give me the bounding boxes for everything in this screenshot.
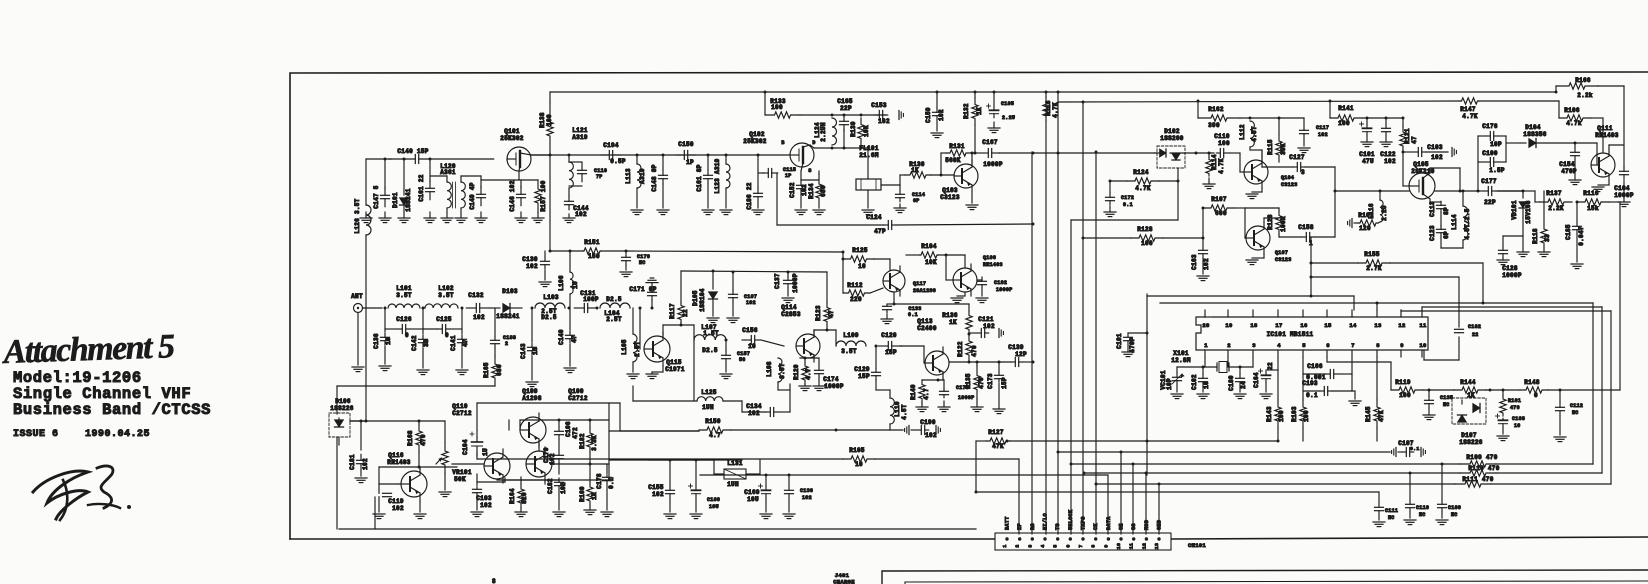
capacitor C144 <box>563 188 589 223</box>
svg-text:Attachment 5: Attachment 5 <box>1 328 176 371</box>
svg-text:1K: 1K <box>911 167 919 174</box>
svg-text:C3123: C3123 <box>1275 257 1292 263</box>
svg-text:C190: C190 <box>920 419 936 426</box>
svg-text:102: 102 <box>1431 154 1443 161</box>
svg-text:VD101: VD101 <box>1511 200 1518 220</box>
svg-text:8: 8 <box>1376 342 1380 349</box>
svg-text:ISSUE 6: ISSUE 6 <box>13 429 59 440</box>
svg-text:R121: R121 <box>1404 128 1411 144</box>
resistor R150 <box>699 418 903 439</box>
svg-text:4: 4 <box>1277 342 1281 349</box>
svg-text:D: D <box>812 140 815 146</box>
capacitor C188 <box>491 308 517 348</box>
svg-text:102: 102 <box>560 482 567 494</box>
ground Q111 emitter <box>1592 181 1609 192</box>
svg-text:4.7: 4.7 <box>805 368 812 380</box>
svg-text:1990.04.25: 1990.04.25 <box>85 429 150 440</box>
svg-text:Q109: Q109 <box>522 388 538 395</box>
svg-text:C177: C177 <box>1481 178 1497 185</box>
capacitor C147 <box>373 158 390 209</box>
svg-text:10U: 10U <box>709 504 719 510</box>
resistor R112 <box>843 282 870 303</box>
svg-text:2.2k: 2.2k <box>1577 92 1593 99</box>
svg-text:7P: 7P <box>596 174 603 180</box>
svg-text:4.5T: 4.5T <box>901 404 908 420</box>
inductor L107 <box>694 324 726 354</box>
wire D106 out <box>350 420 445 423</box>
svg-text:9: 9 <box>1103 544 1109 547</box>
wire Q116 base <box>379 467 457 484</box>
capacitor C110 <box>1214 133 1230 158</box>
resistor R113 <box>1043 97 1059 534</box>
svg-text:R117: R117 <box>669 303 676 319</box>
svg-text:BATT: BATT <box>1005 516 1011 530</box>
svg-text:C129: C129 <box>854 366 870 373</box>
resistor R106 <box>1559 101 1603 152</box>
svg-text:13: 13 <box>1374 322 1382 329</box>
wire C107 row <box>1057 451 1391 535</box>
resistor R109 <box>1460 454 1593 467</box>
capacitor C156 <box>742 327 784 350</box>
svg-text:10: 10 <box>385 337 392 345</box>
capacitor C149 <box>469 176 486 210</box>
svg-text:15P: 15P <box>1001 377 1008 389</box>
svg-text:12P: 12P <box>1015 351 1027 358</box>
wire emitter row <box>497 479 559 481</box>
capacitor C178 <box>596 464 615 517</box>
svg-text:B: B <box>781 140 784 146</box>
inductor L102 <box>422 285 464 310</box>
svg-text:CK: CK <box>1093 523 1099 530</box>
wire 191 to VD101 <box>1498 190 1525 193</box>
svg-text:R111 470: R111 470 <box>1462 476 1493 483</box>
svg-text:C130: C130 <box>522 256 538 263</box>
svg-text:0.1: 0.1 <box>1306 392 1318 399</box>
svg-text:C194: C194 <box>603 142 619 149</box>
svg-text:C102: C102 <box>1191 374 1198 390</box>
resistor R115 <box>1267 118 1287 162</box>
capacitor C127 <box>1262 150 1337 237</box>
capacitor C125 <box>423 316 462 339</box>
svg-text:NC: NC <box>639 260 646 266</box>
svg-text:C100: C100 <box>1482 150 1498 157</box>
wire C124 feedback <box>777 173 884 225</box>
svg-text:L110: L110 <box>894 401 901 417</box>
svg-text:472: 472 <box>572 427 579 439</box>
resistor R110 <box>1460 465 1602 476</box>
resistor R165 <box>483 348 503 386</box>
wire Q105 source out <box>1430 168 1462 193</box>
svg-text:47: 47 <box>462 339 469 347</box>
svg-text:10K: 10K <box>925 259 937 266</box>
svg-text:15k: 15k <box>1587 205 1599 212</box>
diode D104 <box>1520 124 1577 148</box>
svg-text:C146 102: C146 102 <box>509 180 516 211</box>
svg-text:D2.5: D2.5 <box>606 296 622 303</box>
ground Q107 emitter <box>1246 254 1264 265</box>
svg-text:R162: R162 <box>1208 106 1224 113</box>
svg-text:3.5T: 3.5T <box>841 348 857 355</box>
capacitor C101 <box>1359 118 1375 165</box>
svg-text:C104: C104 <box>462 439 469 455</box>
svg-text:102: 102 <box>1318 132 1328 138</box>
svg-text:C141: C141 <box>450 335 457 351</box>
svg-text:22P: 22P <box>1484 199 1496 206</box>
svg-text:4.7K: 4.7K <box>1135 185 1151 192</box>
svg-text:RN1403: RN1403 <box>387 459 411 466</box>
wire R105 row <box>477 452 843 459</box>
capacitor C136b <box>783 475 813 519</box>
wire Q111 collector <box>1609 145 1624 149</box>
bus wire C <box>1057 91 1060 535</box>
wire Q114 emitter node <box>800 355 819 360</box>
capacitor C166 <box>1303 363 1352 391</box>
svg-text:IC101 MB1511: IC101 MB1511 <box>1267 331 1314 338</box>
capacitor C161 <box>418 158 435 202</box>
capacitor C158 <box>1279 224 1335 247</box>
svg-text:20: 20 <box>1202 322 1209 329</box>
svg-text:1SS226: 1SS226 <box>330 405 354 412</box>
svg-text:C128: C128 <box>1502 265 1518 272</box>
svg-text:102: 102 <box>801 184 808 196</box>
svg-text:0.1: 0.1 <box>908 312 918 318</box>
inductor L126 <box>354 198 371 422</box>
capacitor C181 <box>349 421 369 483</box>
wire Q108 collector <box>950 361 971 364</box>
svg-text:CE: CE <box>1119 523 1125 530</box>
svg-text:50K: 50K <box>454 476 466 483</box>
svg-text:47K: 47K <box>1378 410 1385 422</box>
svg-text:R104: R104 <box>921 243 937 250</box>
svg-text:5: 5 <box>1302 342 1306 349</box>
handwritten signature <box>33 466 131 520</box>
inductor L105 <box>621 308 641 379</box>
svg-text:1K: 1K <box>976 107 983 115</box>
svg-text:100: 100 <box>1303 410 1310 422</box>
svg-text:L131: L131 <box>727 460 743 467</box>
svg-text:2SA1290: 2SA1290 <box>913 288 936 294</box>
svg-text:C149 4P: C149 4P <box>469 182 476 209</box>
capacitor C105 <box>987 91 1016 133</box>
svg-text:102: 102 <box>575 211 587 218</box>
ground Q116 emitter <box>414 501 426 519</box>
svg-text:25K302: 25K302 <box>500 135 524 142</box>
wire to Q104 base <box>1230 153 1244 172</box>
transistor Q106 <box>953 255 1003 296</box>
capacitor C134 <box>742 401 790 417</box>
svg-text:C136: C136 <box>373 333 380 349</box>
capacitor C109 <box>1436 464 1461 525</box>
svg-text:C104: C104 <box>1614 185 1630 192</box>
capacitor C175 <box>938 380 975 412</box>
svg-text:CS: CS <box>1131 523 1137 530</box>
capacitor C117 <box>1298 118 1329 153</box>
svg-text:R114: R114 <box>1211 154 1218 170</box>
wire Q114 collector <box>814 330 836 346</box>
svg-text:TS: TS <box>1055 523 1061 530</box>
bus wire A <box>1031 152 1033 534</box>
svg-text:C121: C121 <box>978 316 994 323</box>
svg-text:22P: 22P <box>840 105 852 112</box>
svg-text:L106: L106 <box>558 275 565 291</box>
svg-text:Q100: Q100 <box>568 388 584 395</box>
svg-text:R155: R155 <box>1364 251 1380 258</box>
resistor R133 <box>765 98 800 118</box>
svg-text:C162: C162 <box>1468 324 1481 330</box>
svg-text:100: 100 <box>771 104 783 111</box>
inductor L121 <box>569 127 588 188</box>
transistor Q114 <box>781 304 820 362</box>
svg-text:100: 100 <box>1338 120 1350 127</box>
svg-text:10: 10 <box>1419 342 1426 349</box>
transistor Q110 <box>484 449 510 483</box>
wire R155 out row <box>1310 276 1460 279</box>
inductor L104 <box>596 296 642 323</box>
svg-text:470: 470 <box>978 377 985 389</box>
capacitor C177 <box>1478 178 1523 206</box>
resistor R155 <box>1358 251 1485 305</box>
resistor R118 <box>1532 191 1551 257</box>
svg-text:10P: 10P <box>1490 141 1502 148</box>
IC101 bottom pins <box>1204 342 1426 357</box>
svg-text:15: 15 <box>532 347 539 355</box>
wire R150 row <box>609 430 699 432</box>
inductor L116 <box>1368 190 1388 223</box>
IC IC101 MB1511 <box>1196 317 1428 350</box>
svg-text:R116: R116 <box>1583 190 1599 197</box>
bus wire F <box>1095 151 1098 535</box>
svg-text:C123: C123 <box>1429 225 1436 241</box>
svg-text:C172: C172 <box>1121 195 1134 201</box>
resistor R145 <box>1365 357 1385 441</box>
svg-text:CHARGE: CHARGE <box>833 579 855 584</box>
capacitor C155 <box>648 459 676 519</box>
transistor Q108 <box>900 318 949 379</box>
text J401 CHARGE <box>833 572 855 584</box>
wire Q104 collector <box>1250 147 1262 156</box>
transistor Q103 <box>940 160 978 201</box>
wire pin2 stub <box>1227 357 1229 367</box>
svg-text:C134: C134 <box>746 403 762 410</box>
svg-text:3: 3 <box>1301 169 1305 176</box>
svg-text:1P: 1P <box>686 159 694 166</box>
svg-text:IF: IF <box>1017 523 1023 530</box>
transformer L120 <box>430 163 481 208</box>
capacitor C192 <box>976 277 1013 303</box>
svg-text:C181: C181 <box>349 454 356 470</box>
svg-text:C136: C136 <box>800 488 813 494</box>
transistor Q107 <box>1246 222 1292 263</box>
svg-text:Q114: Q114 <box>781 304 797 311</box>
svg-text:0.5P: 0.5P <box>610 158 626 165</box>
transistor Q105 fet <box>1403 160 1435 199</box>
svg-text:2.2K: 2.2K <box>1548 205 1564 212</box>
svg-text:NC: NC <box>1388 515 1395 521</box>
capacitor C128 <box>1497 236 1523 279</box>
svg-text:C124: C124 <box>866 214 882 221</box>
svg-text:12: 12 <box>1141 543 1147 549</box>
transistor Q109 <box>520 388 546 447</box>
resistor R157 <box>535 180 547 212</box>
svg-text:GND: GND <box>1157 520 1163 530</box>
wire C111 row <box>976 491 1379 493</box>
svg-text:R137: R137 <box>1546 190 1562 197</box>
svg-text:1SS241: 1SS241 <box>496 313 520 320</box>
svg-text:47: 47 <box>1411 136 1418 144</box>
svg-text:C112: C112 <box>1570 403 1583 409</box>
inductor L125 <box>694 340 723 411</box>
svg-text:13: 13 <box>1154 543 1160 549</box>
svg-text:A1298: A1298 <box>522 395 542 402</box>
svg-text:C125: C125 <box>436 316 452 323</box>
bottom rail <box>339 497 976 529</box>
svg-text:100: 100 <box>546 114 553 126</box>
capacitor C172 <box>1104 180 1134 217</box>
crystal filter FL101 <box>856 145 881 190</box>
svg-text:R124: R124 <box>1133 169 1149 176</box>
capacitor C164 <box>1253 357 1278 399</box>
resistor R117 <box>669 271 689 325</box>
svg-text:0: 0 <box>405 332 409 339</box>
svg-text:R165: R165 <box>483 362 490 378</box>
zener VD101 <box>1511 191 1532 257</box>
svg-text:6: 6 <box>1326 342 1330 349</box>
svg-text:16: 16 <box>1300 322 1307 329</box>
svg-text:C2853: C2853 <box>781 311 801 318</box>
svg-text:C161 8P: C161 8P <box>696 164 703 191</box>
svg-text:R144: R144 <box>1460 379 1476 386</box>
svg-text:102: 102 <box>878 118 890 125</box>
svg-text:C117: C117 <box>1316 125 1329 131</box>
resistor R147 <box>1460 98 1479 120</box>
svg-text:R164: R164 <box>509 488 516 504</box>
wire D102 output <box>1185 152 1214 155</box>
resistor R126 <box>1245 208 1287 234</box>
svg-text:1000P: 1000P <box>958 395 975 401</box>
svg-text:100K: 100K <box>1280 216 1287 232</box>
capacitor C191 <box>1116 294 1149 475</box>
wire L125 feed <box>633 386 697 401</box>
svg-text:47P: 47P <box>874 228 886 235</box>
svg-text:ANT: ANT <box>351 293 363 300</box>
svg-text:470: 470 <box>1510 405 1520 411</box>
svg-text:C148 9P: C148 9P <box>651 164 658 191</box>
svg-text:1U: 1U <box>482 448 489 456</box>
svg-text:22: 22 <box>1472 332 1479 338</box>
wire 21.4MHz strip <box>531 154 790 157</box>
transistor Q100 <box>526 388 588 481</box>
svg-text:D106: D106 <box>335 398 351 405</box>
svg-text:R101: R101 <box>1508 398 1521 404</box>
trimmer VC101 <box>1160 367 1184 399</box>
svg-text:1SS260: 1SS260 <box>1160 135 1184 142</box>
svg-text:102: 102 <box>473 314 485 321</box>
svg-text:1000P: 1000P <box>792 273 799 293</box>
wire pin13 row <box>1160 302 1593 465</box>
capacitor C122 <box>1380 118 1396 165</box>
svg-text:D2.5: D2.5 <box>541 314 557 321</box>
svg-text:C120: C120 <box>881 332 897 339</box>
svg-text:15P: 15P <box>885 349 897 356</box>
wire squelch out <box>894 304 969 311</box>
svg-text:1K: 1K <box>591 492 598 500</box>
wire audio interconnects <box>477 420 609 484</box>
svg-text:7: 7 <box>1351 342 1355 349</box>
svg-text:10: 10 <box>1514 423 1521 429</box>
svg-text:C119: C119 <box>388 498 404 505</box>
svg-text:102: 102 <box>480 502 492 509</box>
svg-text:D107: D107 <box>1461 432 1477 439</box>
svg-text:C105: C105 <box>1001 101 1014 107</box>
svg-text:C152: C152 <box>789 182 796 198</box>
svg-text:100P: 100P <box>583 296 599 303</box>
svg-text:600: 600 <box>1215 210 1227 217</box>
svg-text:6P: 6P <box>1443 231 1450 239</box>
svg-text:39K: 39K <box>1280 143 1287 155</box>
svg-text:C2400: C2400 <box>917 325 937 332</box>
svg-text:C113: C113 <box>1429 201 1436 217</box>
svg-text:R168: R168 <box>407 430 414 446</box>
svg-text:0.047: 0.047 <box>1578 226 1585 246</box>
svg-text:CN101: CN101 <box>1188 542 1206 549</box>
capacitor C186 <box>746 155 764 215</box>
wire pin6 stub <box>1326 357 1328 362</box>
svg-text:DATA: DATA <box>1106 516 1112 530</box>
resistor R136 <box>942 311 972 336</box>
svg-text:47: 47 <box>571 335 578 343</box>
capacitor C193 <box>1302 380 1352 399</box>
svg-text:2: 2 <box>1015 544 1021 547</box>
wire pin12 loop <box>1401 310 1611 484</box>
svg-text:3.5T: 3.5T <box>396 292 412 299</box>
resistor R102 <box>1348 212 1380 232</box>
capacitor C116 <box>569 162 607 186</box>
svg-text:NC: NC <box>1443 402 1450 408</box>
wire Q105 row <box>1335 190 1409 192</box>
svg-text:R138: R138 <box>539 112 546 128</box>
wire filter node <box>800 114 886 117</box>
svg-text:R157 100: R157 100 <box>540 180 547 211</box>
resistor R164 <box>509 477 528 517</box>
svg-text:10: 10 <box>1116 543 1122 549</box>
svg-text:680: 680 <box>496 364 503 376</box>
svg-text:R166: R166 <box>1575 77 1591 84</box>
svg-text:R128: R128 <box>1137 226 1153 233</box>
resistor R137 <box>1540 190 1579 212</box>
svg-text:C167: C167 <box>982 139 998 146</box>
diode D105 <box>692 271 719 323</box>
svg-text:Q111: Q111 <box>1597 125 1613 132</box>
svg-text:102: 102 <box>549 453 556 465</box>
capacitor C170 <box>620 250 845 277</box>
capacitor C141 <box>450 308 469 375</box>
svg-text:1000P: 1000P <box>996 287 1013 293</box>
svg-text:L114: L114 <box>1451 214 1458 230</box>
transistor Q101 <box>500 128 531 171</box>
capacitor C112 <box>1554 390 1583 442</box>
svg-text:3.3K: 3.3K <box>591 435 598 451</box>
rail right segment <box>1058 101 1559 102</box>
inductor L108 <box>766 358 790 412</box>
capacitor C167 <box>974 139 1003 168</box>
wire R109 row <box>1070 463 1461 535</box>
svg-text:R136: R136 <box>942 312 958 319</box>
svg-text:TXPS: TXPS <box>1081 516 1087 530</box>
transistor Q110 label <box>452 403 472 417</box>
svg-text:C158: C158 <box>1298 224 1314 231</box>
capacitor C126 <box>385 316 423 339</box>
svg-text:100: 100 <box>1141 240 1153 247</box>
